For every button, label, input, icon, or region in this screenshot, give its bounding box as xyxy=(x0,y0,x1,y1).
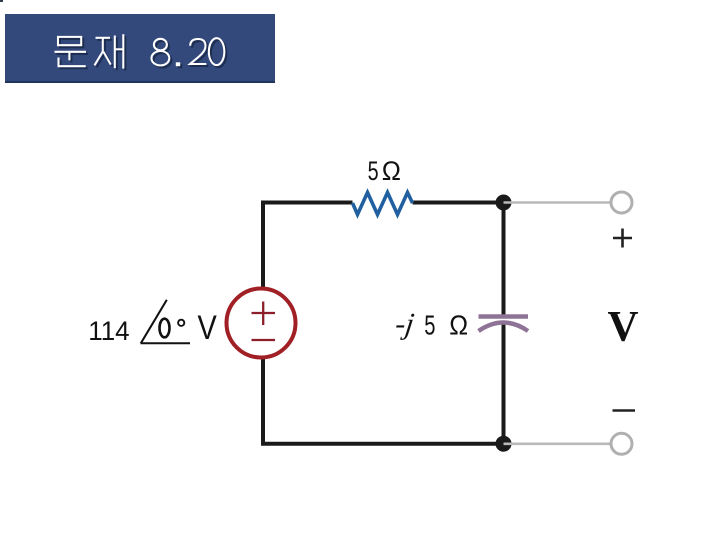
capacitor C1 curved plate xyxy=(479,323,529,332)
wire left upper (to source +) xyxy=(261,201,265,290)
svg-text:114: 114 xyxy=(88,316,129,346)
svg-text:5: 5 xyxy=(424,310,435,341)
angle symbol xyxy=(141,300,191,344)
svg-text:V: V xyxy=(608,304,639,351)
polarity minus (output) xyxy=(613,409,636,412)
svg-text:Ω: Ω xyxy=(382,155,401,186)
source plus mark xyxy=(252,302,276,326)
wire top-left (node A to resistor) xyxy=(263,201,353,205)
voltage source VS circle xyxy=(227,289,296,358)
title text 문제 8.20 (shadow) xyxy=(57,36,227,70)
svg-text:V: V xyxy=(198,308,217,347)
wire right upper (node B to capacitor) xyxy=(502,201,506,317)
svg-text:-j: -j xyxy=(393,307,416,341)
wire left lower (source - to bottom) xyxy=(261,357,265,446)
degree symbol xyxy=(178,320,184,326)
svg-text:5: 5 xyxy=(368,157,379,187)
polarity plus (output) xyxy=(613,229,632,248)
corner mark xyxy=(0,0,3,2)
source minus mark xyxy=(252,339,276,341)
wire bottom xyxy=(261,442,504,446)
terminal bottom (open circle) xyxy=(611,433,632,454)
svg-text:Ω: Ω xyxy=(449,309,468,341)
angle value 0 (oval zero) xyxy=(160,319,170,338)
lead top (gray) xyxy=(504,201,611,204)
resistor R1 5ohm zigzag xyxy=(353,193,413,215)
wire top-right (resistor to node B) xyxy=(413,201,504,205)
title banner xyxy=(5,14,275,83)
label -j5 ohm xyxy=(393,307,468,342)
lead bottom (gray) xyxy=(504,442,611,445)
wire right lower (capacitor to node C) xyxy=(502,323,506,446)
title text 문제 8.20 (white) xyxy=(55,34,225,68)
terminal top (open circle) xyxy=(611,192,632,213)
node C (bottom junction dot) xyxy=(496,436,512,452)
capacitor C1 top plate xyxy=(479,314,529,318)
node B (top junction dot) xyxy=(496,195,512,211)
